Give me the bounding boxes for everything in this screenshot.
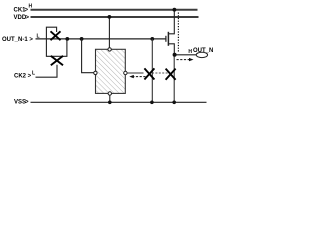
svg-text:>: >	[25, 99, 29, 105]
svg-text:H: H	[29, 4, 33, 10]
svg-text:>: >	[26, 15, 30, 21]
svg-text:L: L	[32, 71, 35, 77]
svg-text:OUT_N: OUT_N	[193, 48, 213, 54]
svg-text:H: H	[188, 49, 192, 55]
svg-text:CK2 >: CK2 >	[14, 74, 32, 80]
svg-text:OUT_N-1 >: OUT_N-1 >	[2, 37, 33, 43]
